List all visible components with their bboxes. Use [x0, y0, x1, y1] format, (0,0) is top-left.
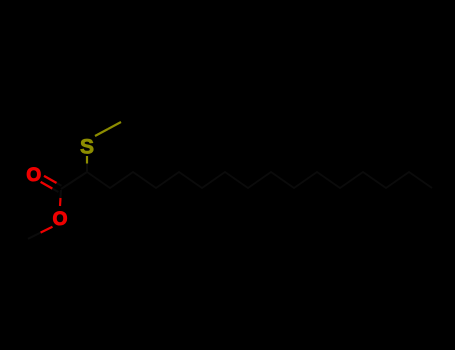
bond S1-C2 (carbon half) — [86, 164, 88, 173]
double bond C1=O1 line b (red half) — [41, 182, 53, 189]
bond S1-C2 (olive half) — [86, 156, 88, 164]
bond C1-O2 (carbon half) — [60, 190, 63, 198]
alkyl chain C2..C17 zigzag — [87, 172, 432, 188]
bond C1-O2 (red half) — [59, 198, 62, 206]
double bond C1=O1 line b (carbon half) — [52, 189, 58, 192]
bond O2-CH3 (carbon half) — [28, 233, 41, 239]
bond C2-C1 (alpha carbon to carbonyl carbon) — [61, 172, 87, 189]
double bond C1=O1 line a (red half) — [44, 176, 57, 183]
svg-text:S: S — [80, 136, 94, 159]
bond S1-CH3 (methyl half, drawn in sulfur colour as in source) — [108, 122, 121, 129]
svg-text:O: O — [26, 165, 41, 186]
bond O2-CH3 (red half) — [41, 227, 53, 233]
svg-text:O: O — [53, 209, 68, 230]
double bond C1=O1 line a (carbon half) — [57, 183, 62, 186]
bond S1-CH3 (S-methyl, olive half) — [95, 129, 108, 136]
